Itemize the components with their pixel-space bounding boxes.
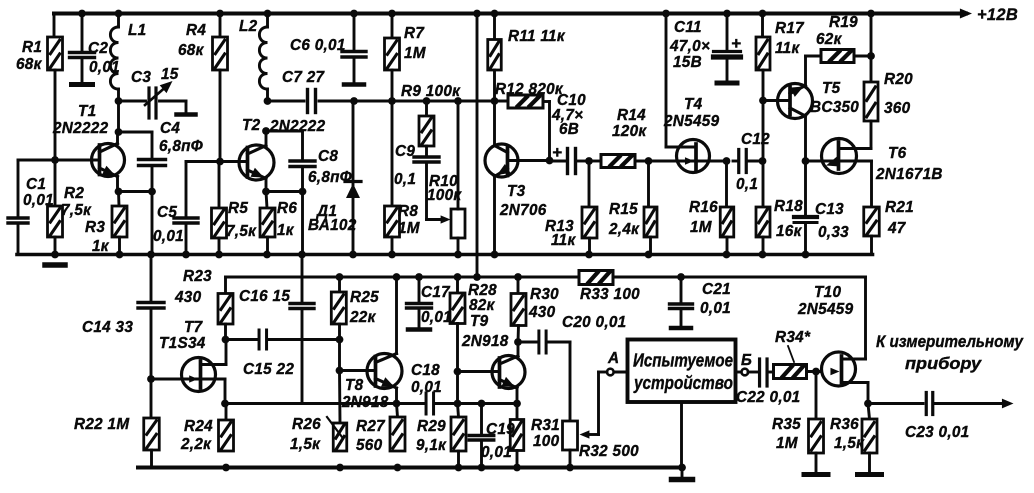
svg-text:C21: C21: [702, 281, 731, 298]
svg-text:47,0×: 47,0×: [669, 38, 710, 55]
svg-text:R31: R31: [531, 417, 560, 434]
svg-text:15: 15: [161, 66, 179, 83]
svg-text:0,01: 0,01: [23, 192, 54, 209]
svg-text:1М: 1М: [404, 45, 427, 62]
svg-text:R26: R26: [292, 416, 321, 433]
svg-text:T10: T10: [814, 284, 841, 301]
svg-text:R36: R36: [830, 416, 859, 433]
svg-text:C15 22: C15 22: [243, 361, 294, 378]
svg-text:0,01: 0,01: [89, 59, 120, 76]
svg-text:C19: C19: [486, 421, 515, 438]
svg-text:+12В: +12В: [977, 6, 1018, 24]
svg-text:T5: T5: [822, 80, 841, 97]
svg-text:0,01: 0,01: [481, 444, 512, 461]
svg-text:R25: R25: [350, 289, 379, 306]
svg-text:прибору: прибору: [905, 355, 982, 373]
svg-text:0,01: 0,01: [153, 228, 184, 245]
svg-text:2N2222: 2N2222: [269, 118, 326, 135]
svg-text:C1: C1: [26, 176, 46, 193]
svg-text:C2: C2: [88, 40, 108, 57]
svg-text:C9: C9: [395, 143, 415, 160]
svg-text:22к: 22к: [349, 309, 377, 326]
svg-text:11к: 11к: [551, 232, 576, 249]
svg-text:T6: T6: [888, 145, 907, 162]
svg-text:0,33: 0,33: [818, 224, 849, 241]
svg-text:2N1671В: 2N1671В: [875, 166, 943, 183]
svg-text:R27: R27: [356, 418, 386, 435]
svg-text:C12: C12: [741, 131, 770, 148]
svg-text:0,1: 0,1: [394, 171, 416, 188]
svg-text:47: 47: [887, 220, 907, 237]
svg-text:R12 820к: R12 820к: [495, 81, 564, 98]
svg-text:560: 560: [356, 437, 383, 454]
svg-text:R15: R15: [609, 201, 638, 218]
svg-text:C17: C17: [421, 284, 451, 301]
svg-text:R30: R30: [530, 286, 559, 303]
svg-text:1М: 1М: [690, 219, 713, 236]
svg-text:R23: R23: [183, 268, 212, 285]
svg-text:T8: T8: [345, 377, 364, 394]
svg-text:+: +: [552, 143, 562, 162]
svg-text:R17: R17: [775, 20, 805, 37]
svg-text:ВА102: ВА102: [308, 217, 357, 234]
svg-text:2N2222: 2N2222: [52, 120, 109, 137]
svg-text:C18: C18: [411, 362, 440, 379]
svg-text:68к: 68к: [16, 56, 43, 73]
svg-text:R21: R21: [885, 199, 914, 216]
svg-text:11к: 11к: [775, 40, 800, 57]
svg-text:Б: Б: [741, 352, 752, 369]
svg-text:2,2к: 2,2к: [180, 436, 212, 453]
svg-text:2N918: 2N918: [341, 394, 389, 411]
svg-text:R33 100: R33 100: [580, 286, 640, 303]
svg-text:L2: L2: [239, 18, 258, 35]
svg-text:устройство: устройство: [633, 372, 733, 393]
svg-text:62к: 62к: [816, 31, 843, 48]
svg-text:1к: 1к: [277, 222, 295, 239]
svg-text:C7 27: C7 27: [282, 69, 326, 86]
svg-text:1,5к: 1,5к: [834, 435, 865, 452]
svg-text:T1S34: T1S34: [159, 335, 206, 352]
svg-text:0,1: 0,1: [736, 176, 758, 193]
svg-text:2N706: 2N706: [499, 202, 547, 219]
svg-text:R6: R6: [277, 200, 297, 217]
svg-text:R7: R7: [404, 25, 425, 42]
svg-text:C20 0,01: C20 0,01: [562, 314, 626, 331]
svg-text:R18: R18: [774, 198, 803, 215]
svg-text:T9: T9: [470, 313, 489, 330]
svg-text:1М: 1М: [398, 220, 421, 237]
svg-text:7,5к: 7,5к: [61, 202, 92, 219]
svg-text:C16 15: C16 15: [239, 288, 290, 305]
svg-text:C3: C3: [131, 69, 151, 86]
svg-text:9,1к: 9,1к: [416, 437, 447, 454]
svg-text:R9 100к: R9 100к: [401, 83, 461, 100]
svg-text:T1: T1: [78, 103, 96, 120]
svg-text:C11: C11: [674, 19, 702, 36]
svg-text:R2: R2: [64, 185, 84, 202]
svg-text:+: +: [731, 34, 741, 53]
svg-text:100: 100: [533, 433, 560, 450]
svg-text:К измерительному: К измерительному: [876, 333, 1024, 351]
svg-text:1к: 1к: [92, 238, 110, 255]
svg-text:T4: T4: [684, 96, 703, 113]
svg-text:82к: 82к: [469, 297, 496, 314]
svg-text:T2: T2: [242, 117, 261, 134]
svg-text:68к: 68к: [178, 42, 205, 59]
svg-text:C14 33: C14 33: [82, 319, 133, 336]
svg-text:C13: C13: [815, 201, 844, 218]
svg-text:C22 0,01: C22 0,01: [736, 389, 800, 406]
svg-text:R8: R8: [398, 203, 418, 220]
svg-text:2N5459: 2N5459: [663, 113, 720, 130]
svg-text:0,01: 0,01: [421, 309, 452, 326]
svg-text:T3: T3: [507, 183, 526, 200]
svg-text:0,01: 0,01: [700, 300, 731, 317]
svg-text:1М: 1М: [776, 435, 799, 452]
svg-text:R5: R5: [228, 200, 248, 217]
svg-text:16к: 16к: [776, 223, 803, 240]
svg-text:2N918: 2N918: [461, 333, 509, 350]
svg-text:100к: 100к: [427, 187, 462, 204]
svg-text:R34*: R34*: [775, 329, 811, 346]
svg-text:R24: R24: [184, 418, 213, 435]
svg-text:1,5к: 1,5к: [290, 436, 321, 453]
svg-text:R32 500: R32 500: [579, 443, 639, 460]
svg-text:R16: R16: [689, 199, 718, 216]
svg-text:2N5459: 2N5459: [797, 301, 854, 318]
svg-text:6,8пФ: 6,8пФ: [159, 138, 203, 155]
svg-text:BC350: BC350: [810, 99, 859, 116]
svg-text:360: 360: [884, 100, 911, 117]
svg-text:7,5к: 7,5к: [226, 223, 257, 240]
svg-text:R29: R29: [417, 418, 446, 435]
svg-text:15В: 15В: [673, 54, 702, 71]
svg-text:R20: R20: [884, 71, 913, 88]
svg-text:C5: C5: [157, 204, 177, 221]
svg-text:0,01: 0,01: [411, 379, 442, 396]
svg-text:C6 0,01: C6 0,01: [290, 37, 346, 54]
svg-text:6В: 6В: [559, 121, 579, 138]
svg-text:Испытуемое: Испытуемое: [633, 350, 733, 371]
svg-text:C23 0,01: C23 0,01: [905, 424, 969, 441]
svg-text:R1: R1: [22, 39, 42, 56]
svg-text:C4: C4: [160, 120, 180, 137]
svg-text:А: А: [607, 350, 619, 367]
svg-text:R35: R35: [772, 416, 801, 433]
svg-text:120к: 120к: [612, 123, 647, 140]
svg-text:R22 1М: R22 1М: [74, 416, 130, 433]
svg-text:430: 430: [174, 289, 202, 306]
svg-text:T7: T7: [184, 319, 204, 336]
svg-text:430: 430: [528, 304, 556, 321]
svg-text:L1: L1: [128, 22, 146, 39]
svg-text:2,4к: 2,4к: [608, 221, 640, 238]
svg-text:6,8пФ: 6,8пФ: [308, 169, 352, 186]
svg-text:R19: R19: [829, 14, 858, 31]
svg-text:R14: R14: [617, 107, 646, 124]
svg-text:R11 11к: R11 11к: [508, 28, 566, 45]
svg-text:C8: C8: [318, 148, 338, 165]
svg-text:R3: R3: [85, 219, 105, 236]
svg-text:R4: R4: [186, 22, 206, 39]
